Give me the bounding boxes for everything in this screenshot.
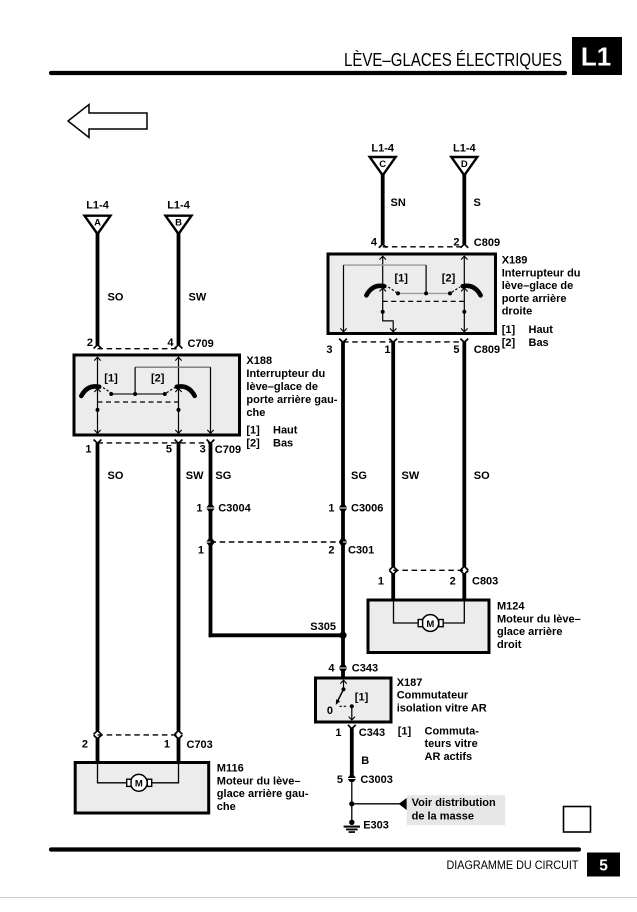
svg-text:Moteur du lève–: Moteur du lève– [217,775,301,787]
connector C809 (bottom of X189) [339,339,347,343]
svg-text:Haut: Haut [529,324,554,336]
svg-text:[1]: [1] [395,272,409,284]
svg-text:[2]: [2] [246,438,260,450]
splice S305 [339,632,346,639]
wire SG from X188 pin 3 [209,443,213,505]
wire SO from X189 pin 5 [462,342,466,566]
X189 left wiper arc [366,286,384,296]
X187 dashed link [340,705,348,707]
motor M116 body [75,763,209,814]
svg-text:porte arrière gau-: porte arrière gau- [246,394,337,406]
svg-text:1: 1 [164,739,170,751]
X188 pin 2 internal line [94,357,100,360]
svg-text:C3006: C3006 [351,503,383,515]
svg-text:Moteur du lève–: Moteur du lève– [497,613,581,625]
switch X188 body [74,355,240,435]
ground E303 [349,820,354,825]
switch X189 body [328,254,496,334]
L1 page tab box [572,37,622,75]
X189 right wiper arc [463,286,481,296]
connector C3003 [348,775,356,782]
wire SW from X188 pin 5 [177,443,181,731]
switch X187 body [316,678,392,722]
svg-text:C803: C803 [472,576,498,588]
svg-text:C703: C703 [187,739,213,751]
svg-text:L1: L1 [581,42,611,72]
svg-text:M: M [426,619,434,630]
connector C703 [94,731,102,735]
masse note arrow [399,798,407,810]
wire C343 to X187 [341,671,345,678]
svg-text:4: 4 [371,236,378,248]
back arrow (left pointing outline) [68,105,147,138]
svg-text:3: 3 [326,344,332,356]
svg-text:2: 2 [450,575,456,587]
wire from C301 down to S305 [209,545,213,638]
svg-text:[2]: [2] [502,337,516,349]
header rule [51,71,565,75]
X187 output contact [350,704,354,708]
X188 pin 1 line [97,410,99,433]
svg-text:SW: SW [402,470,420,482]
M124 motor symbol [422,615,439,632]
svg-text:1: 1 [328,503,334,515]
svg-text:Interrupteur du: Interrupteur du [502,267,581,279]
svg-text:3: 3 [200,443,206,455]
X188 dashed contact links [103,388,111,393]
svg-text:de la masse: de la masse [412,810,474,822]
motor M124 body [368,600,489,653]
svg-text:C343: C343 [359,727,385,739]
svg-text:Bas: Bas [273,438,293,450]
svg-text:Haut: Haut [273,425,298,437]
svg-text:E303: E303 [363,820,389,832]
wire SW from B to C709 pin 4 [177,233,181,345]
svg-text:SN: SN [391,197,406,209]
svg-text:[1]: [1] [104,373,118,385]
connector C709 (bottom of X188) [94,440,102,444]
svg-text:1: 1 [196,503,202,515]
X189 pin 5 line [463,312,465,331]
svg-text:glace arrière gau-: glace arrière gau- [217,788,309,800]
svg-text:5: 5 [453,344,459,356]
svg-text:2: 2 [82,739,88,751]
svg-text:C343: C343 [352,663,378,675]
svg-text:1: 1 [198,545,204,557]
svg-text:5: 5 [166,443,172,455]
svg-text:X188: X188 [246,355,272,367]
wire SG from X189 pin 3 [341,342,345,505]
svg-text:L1-4: L1-4 [371,143,395,155]
connector C343 pin 4 [339,665,347,672]
X188 wiper arrows [94,389,100,392]
svg-text:B: B [175,218,182,229]
svg-text:SG: SG [351,470,367,482]
masse note label [407,795,506,825]
connector C3006 [339,505,347,512]
X188 left wiper arc [81,386,99,396]
svg-text:S: S [474,197,481,209]
svg-text:Commutateur: Commutateur [397,690,469,702]
svg-text:D: D [461,159,468,170]
X188 mechanical link dashed [98,401,179,403]
faint bottom line [0,897,637,899]
svg-text:C709: C709 [188,338,214,350]
footer rule [51,847,579,851]
svg-text:4: 4 [328,663,335,675]
M116 motor symbol [130,774,147,791]
svg-text:lève–glace de: lève–glace de [502,280,574,292]
svg-text:SG: SG [215,470,231,482]
svg-text:L1-4: L1-4 [453,143,477,155]
svg-text:[1]: [1] [398,725,412,737]
X188 moving contact bar [111,393,165,395]
svg-text:1: 1 [335,727,341,739]
svg-text:1: 1 [378,575,384,587]
svg-text:M: M [135,779,143,790]
svg-text:droit: droit [497,639,522,651]
X189 wiper arrows [380,288,386,291]
svg-text:che: che [246,407,265,419]
svg-text:lève–glace de: lève–glace de [246,381,318,393]
X188 right wiper arc [177,386,195,396]
X188 pin 5 line [178,410,180,433]
node to masse note [349,801,354,806]
svg-text:1: 1 [384,344,390,356]
svg-text:S305: S305 [310,621,336,633]
svg-text:1: 1 [85,443,91,455]
X189 pin 2 internal line [461,256,467,259]
X188 pin 4 internal line [175,357,181,360]
svg-text:isolation vitre AR: isolation vitre AR [397,702,487,714]
connector C803 [393,569,464,571]
connector C3004 [206,505,214,512]
svg-text:teurs vitre: teurs vitre [425,738,478,750]
X189 dashed contact links [388,287,396,292]
connector L1-4 B triangle [166,216,192,234]
wire SN from C to C809 pin 4 [381,174,385,244]
wire SW from X189 pin 1 [391,342,395,566]
svg-text:Bas: Bas [529,337,549,349]
X189 lower contact nodes [381,310,385,314]
M116 internal leads [98,764,127,783]
svg-text:2: 2 [328,545,334,557]
ground lead below C3003 [351,781,353,820]
svg-text:Interrupteur du: Interrupteur du [246,368,325,380]
X187 common pin line [340,680,346,683]
svg-text:5: 5 [337,774,343,786]
svg-text:C709: C709 [215,444,241,456]
svg-text:Commuta-: Commuta- [425,725,480,737]
svg-text:L1-4: L1-4 [167,200,191,212]
X189 moving contact bar [398,292,450,294]
svg-text:B: B [361,755,369,767]
wire SO from X188 pin 1 [96,443,100,731]
connector C301 pin 1 [206,539,214,546]
svg-text:SO: SO [108,291,124,303]
svg-text:5: 5 [599,858,608,875]
svg-text:[1]: [1] [246,425,260,437]
svg-text:droite: droite [502,306,533,318]
svg-text:[1]: [1] [502,324,516,336]
svg-text:C: C [379,159,386,170]
svg-text:X189: X189 [502,254,528,266]
small blank square bottom right [564,807,591,833]
svg-text:[1]: [1] [355,691,369,703]
svg-text:DIAGRAMME DU CIRCUIT: DIAGRAMME DU CIRCUIT [447,858,579,872]
X189 mechanical link dashed [383,300,465,302]
svg-text:C3003: C3003 [360,774,392,786]
connector C343 pin 1 (below X187) [348,725,356,729]
svg-text:porte arrière: porte arrière [502,293,567,305]
X189 internal feed line to pin 3 [344,264,427,266]
svg-text:che: che [217,801,236,813]
connector C301 pin 2 [339,539,347,546]
svg-text:Voir distribution: Voir distribution [412,797,496,809]
X189 pin 1 jog line [383,312,394,331]
M124 internal leads [394,602,419,624]
svg-text:SW: SW [186,470,204,482]
svg-text:SW: SW [189,291,207,303]
X188 lower contact nodes [96,408,100,412]
svg-text:C809: C809 [474,344,500,356]
svg-text:C301: C301 [348,545,374,557]
svg-text:4: 4 [167,337,174,349]
svg-text:A: A [94,218,101,229]
wire S from D to C809 pin 2 [462,174,466,244]
svg-text:C3004: C3004 [218,503,251,515]
svg-text:glace arrière: glace arrière [497,626,562,638]
connector L1-4 A triangle [85,216,111,234]
svg-text:LÈVE–GLACES ÉLECTRIQUES: LÈVE–GLACES ÉLECTRIQUES [344,49,562,70]
wire SO from A to C709 pin 2 [96,233,100,345]
svg-text:[2]: [2] [442,272,456,284]
X188 internal feed line to pin 3 [135,366,210,368]
connector L1-4 C triangle [370,157,396,175]
svg-text:[2]: [2] [151,373,165,385]
svg-text:M116: M116 [217,763,244,775]
svg-text:SO: SO [108,470,124,482]
svg-text:2: 2 [87,337,93,349]
svg-text:SO: SO [474,470,490,482]
X187 lever [338,689,344,700]
svg-text:X187: X187 [397,677,423,689]
X189 pin 4 internal line [380,256,386,259]
svg-text:0: 0 [327,705,333,717]
wire below C301 to S305 [341,545,345,666]
svg-text:C809: C809 [474,237,500,249]
connector L1-4 D triangle [451,157,477,175]
svg-text:AR actifs: AR actifs [425,751,473,763]
svg-text:L1-4: L1-4 [86,200,110,212]
page number box 5 [587,853,620,877]
svg-text:M124: M124 [497,601,525,613]
